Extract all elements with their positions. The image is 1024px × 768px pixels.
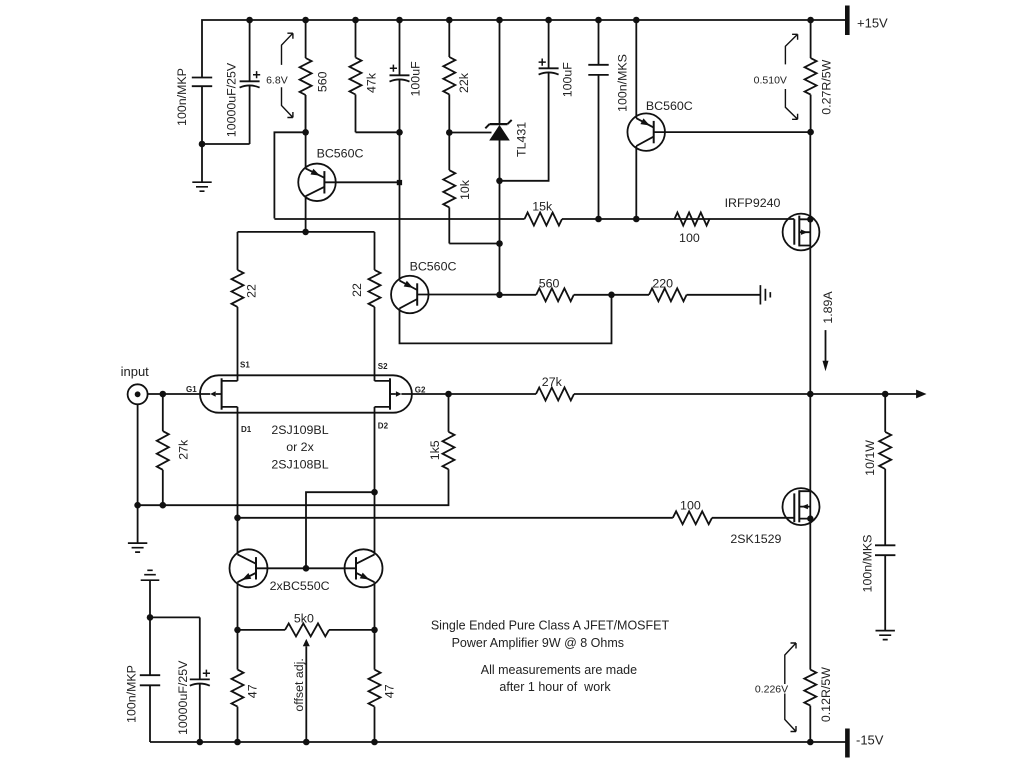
svg-text:input: input xyxy=(121,364,150,379)
svg-text:G1: G1 xyxy=(186,385,197,394)
label 22 right xyxy=(350,283,364,297)
wiper offset adj xyxy=(303,639,310,742)
label 10000uF/25V xyxy=(225,62,239,137)
svg-text:100n/MKP: 100n/MKP xyxy=(125,665,139,723)
resistor 10/1W xyxy=(879,394,891,545)
svg-text:D1: D1 xyxy=(241,425,252,434)
junction square BC560C base node xyxy=(397,180,402,185)
wire emitter node left jog xyxy=(274,132,305,218)
label 100 top xyxy=(679,231,700,245)
resistor 22k xyxy=(443,20,455,133)
jfet J2 right half xyxy=(375,378,402,409)
node top bus / 0.27R junction xyxy=(807,17,814,24)
wire input to G1 xyxy=(148,393,211,395)
label 100 bottom xyxy=(680,499,701,513)
wire 47k bottom to 100uF xyxy=(356,131,400,133)
svg-text:2SJ109BL: 2SJ109BL xyxy=(271,423,328,437)
node 5k0 left xyxy=(234,627,241,634)
capacitor 10000uF/25V (top-left electrolytic) xyxy=(240,20,261,144)
label 27k input xyxy=(177,439,191,460)
pin label D1 xyxy=(241,425,252,434)
node rail / 0.12R xyxy=(807,739,814,746)
svg-text:220: 220 xyxy=(652,277,673,291)
pin label S1 xyxy=(240,361,250,370)
node 560 / emitter junction xyxy=(302,129,309,136)
wire 10k bottom to TL431 cathode line xyxy=(449,243,499,245)
capacitor 100uF (left electrolytic) xyxy=(390,20,410,281)
label +15V xyxy=(857,15,888,30)
resistor 47k xyxy=(350,20,362,132)
node 5k0 right xyxy=(371,627,378,634)
resistor 47 right xyxy=(369,630,381,742)
node rail / 47 right xyxy=(371,739,378,746)
label 47 right xyxy=(382,684,396,698)
capacitor 100n/MKS (zobel) xyxy=(875,545,895,630)
svg-text:TL431: TL431 xyxy=(514,122,528,157)
wire D2 drop xyxy=(374,407,376,555)
mosfet 2SK1529 xyxy=(783,394,820,670)
label -15V xyxy=(856,732,884,747)
node IRFP drain stub xyxy=(807,216,813,222)
label 220 xyxy=(652,277,673,291)
svg-text:100n/MKS: 100n/MKS xyxy=(615,54,629,112)
wire +15V top bus xyxy=(202,20,848,78)
node 22k/10k junction xyxy=(446,129,453,136)
svg-text:22: 22 xyxy=(244,284,258,298)
label 22 left xyxy=(244,284,258,298)
label 10/1W xyxy=(863,440,877,476)
label 2SJ108BL xyxy=(271,457,328,471)
svg-text:BC560C: BC560C xyxy=(317,146,364,160)
connector input jack xyxy=(128,384,148,404)
wire emitter degeneration row xyxy=(238,629,375,631)
node 47k/100uF junction xyxy=(396,129,403,136)
label 560 middle xyxy=(539,277,560,291)
wire cap link xyxy=(150,616,200,618)
label 560 xyxy=(315,71,329,92)
svg-text:100n/MKS: 100n/MKS xyxy=(861,535,875,593)
node ground link xyxy=(199,141,206,148)
svg-text:15k: 15k xyxy=(532,200,553,214)
svg-text:+15V: +15V xyxy=(857,15,888,30)
svg-text:All measurements are made: All measurements are made xyxy=(481,663,637,677)
wire G2 to output xyxy=(401,393,536,395)
terminal +15V xyxy=(845,6,850,36)
mosfet IRFP9240 xyxy=(783,132,820,394)
node tail / BC560C1 collector xyxy=(302,229,309,236)
resistor 100 (2SK gate) xyxy=(673,511,712,524)
label input xyxy=(121,364,150,379)
node top bus / 10000uF junction xyxy=(246,17,253,24)
node top bus / BC560C3 emitter junction xyxy=(633,17,640,24)
resistor 560 (current source emitter) xyxy=(300,20,312,132)
resistor 10k xyxy=(443,133,455,244)
transistor BC550C right xyxy=(306,549,383,630)
capacitor 100n/MKS (top film cap) xyxy=(588,20,608,219)
node D2 / mirror tie junction xyxy=(371,489,378,496)
svg-text:100uF: 100uF xyxy=(561,62,575,98)
voltage bracket 0.510V xyxy=(785,34,797,119)
svg-text:2xBC550C: 2xBC550C xyxy=(270,579,330,593)
node top bus / 100uF2 junction xyxy=(545,17,552,24)
label 2SK1529 xyxy=(730,532,781,546)
label 5k0 xyxy=(294,611,314,625)
wire output rail xyxy=(574,393,917,395)
wire ground link top-left xyxy=(202,143,250,145)
svg-text:47: 47 xyxy=(245,684,259,698)
title line 4 xyxy=(499,680,611,694)
resistor 15k xyxy=(525,213,563,226)
label 6.8V xyxy=(266,75,288,87)
label 22k xyxy=(457,72,471,93)
svg-text:offset adj.: offset adj. xyxy=(292,658,306,712)
node top bus / 47k junction xyxy=(352,17,359,24)
svg-text:10k: 10k xyxy=(458,179,472,200)
transistor BC550C left xyxy=(230,549,307,630)
svg-text:560: 560 xyxy=(315,71,329,92)
label 0.226V xyxy=(755,684,788,696)
svg-text:Power Amplifier 9W @ 8 Ohms: Power Amplifier 9W @ 8 Ohms xyxy=(452,636,624,650)
node 15k row / BC560C3 collector junction xyxy=(633,216,640,223)
node TL431 / 10k junction xyxy=(496,240,503,247)
svg-text:6.8V: 6.8V xyxy=(266,75,288,87)
label 100n/MKS zobel xyxy=(861,535,875,593)
svg-text:D2: D2 xyxy=(378,422,389,431)
title line 3 xyxy=(481,663,637,677)
svg-text:BC560C: BC560C xyxy=(410,260,457,274)
resistor 220 xyxy=(649,288,687,301)
wire S1 drop xyxy=(237,307,239,381)
label 0.510V xyxy=(754,75,787,87)
transistor BC560C (middle) xyxy=(391,276,611,344)
svg-text:0.12R/5W: 0.12R/5W xyxy=(819,667,833,722)
output arrow xyxy=(916,390,926,399)
svg-text:0.27R/5W: 0.27R/5W xyxy=(820,59,834,114)
resistor 0.27R/5W xyxy=(805,20,817,132)
node input ground corner xyxy=(134,502,141,509)
svg-text:Single Ended Pure Class A JFET: Single Ended Pure Class A JFET/MOSFET xyxy=(431,619,670,633)
wire S2 drop xyxy=(374,307,376,381)
wire D1 drop xyxy=(237,407,239,555)
resistor 560 (gate stopper row) xyxy=(536,288,574,301)
svg-text:27k: 27k xyxy=(177,439,191,460)
svg-text:BC560C: BC560C xyxy=(646,99,693,113)
label 100n/MKP xyxy=(175,68,189,126)
resistor 47 left xyxy=(232,630,244,742)
label IRFP9240 xyxy=(725,196,781,210)
label BC560C middle xyxy=(410,260,457,274)
svg-text:1k5: 1k5 xyxy=(428,440,442,460)
resistor 22 right xyxy=(369,232,381,307)
node output / 10-1W junction xyxy=(882,391,889,398)
ground sideways (220 end) xyxy=(760,285,770,304)
transistor BC560C (tail current source) xyxy=(298,95,399,232)
label 47 left xyxy=(245,684,259,698)
node rail / wiper xyxy=(303,739,310,746)
svg-text:100: 100 xyxy=(680,499,701,513)
svg-text:1.89A: 1.89A xyxy=(821,291,835,324)
svg-text:560: 560 xyxy=(539,277,560,291)
node 0.27R / base junction xyxy=(807,129,814,136)
resistor 27k (input) xyxy=(157,394,169,505)
pin label S2 xyxy=(378,362,388,371)
label 10k xyxy=(458,179,472,200)
label BC560C tail xyxy=(317,146,364,160)
node bottom-left caps xyxy=(147,614,154,621)
node rail / 47 left xyxy=(234,739,241,746)
svg-text:27k: 27k xyxy=(542,375,563,389)
resistor 22 left xyxy=(232,232,244,307)
node input / 27k junction xyxy=(160,391,167,398)
label 2SJ109BL xyxy=(271,423,328,437)
ground top-left xyxy=(192,144,211,191)
label 1k5 xyxy=(428,440,442,460)
node mirror bases xyxy=(303,565,310,572)
label 100n/MKS xyxy=(615,54,629,112)
svg-text:2SK1529: 2SK1529 xyxy=(730,532,781,546)
label 100uF xyxy=(408,61,422,97)
title line 1 xyxy=(431,619,670,633)
node 27k bottom xyxy=(160,502,167,509)
wire input ground drop xyxy=(137,404,139,505)
capacitor 100n/MKP (bottom film cap) xyxy=(140,617,160,742)
voltage bracket 0.226V xyxy=(785,643,796,732)
diode TL431 (shunt reference) xyxy=(485,20,511,295)
svg-text:or 2x: or 2x xyxy=(286,440,314,454)
node top bus / 100uF junction xyxy=(396,17,403,24)
node output / IRFP source xyxy=(807,391,814,398)
label 0.27R/5W xyxy=(820,59,834,114)
svg-text:10000uF/25V: 10000uF/25V xyxy=(176,660,190,735)
node 2SK source stub xyxy=(807,515,813,521)
label 27k feedback xyxy=(542,375,563,389)
svg-text:2SJ108BL: 2SJ108BL xyxy=(271,457,328,471)
wire TL431 ref xyxy=(449,132,491,134)
terminal -15V xyxy=(845,729,850,758)
label or 2x xyxy=(286,440,314,454)
node top bus / TL431 junction xyxy=(496,17,503,24)
svg-text:47: 47 xyxy=(382,684,396,698)
node rail / MKP bottom xyxy=(197,739,204,746)
label 100uF right xyxy=(561,62,575,98)
wire -15V bottom rail xyxy=(150,741,848,743)
jfet J1 left half xyxy=(210,378,237,409)
node 560/220 junction xyxy=(608,292,615,299)
wire 560-220 row xyxy=(500,294,761,296)
label 47k xyxy=(364,72,378,93)
node top bus / 100n MKS junction xyxy=(595,17,602,24)
wire 15k row xyxy=(274,218,794,220)
label 100n/MKP bottom xyxy=(125,665,139,723)
title line 2 xyxy=(452,636,624,650)
wire gate feed row (D1 to 2SK1529) xyxy=(238,517,795,519)
node D1 / gate feed junction xyxy=(234,515,241,522)
svg-text:IRFP9240: IRFP9240 xyxy=(725,196,781,210)
node TL431 / 100uF2 junction xyxy=(496,178,503,185)
ground bottom-left (flipped) xyxy=(141,570,160,617)
wire tail node xyxy=(238,231,375,233)
svg-text:G2: G2 xyxy=(415,385,426,394)
pin label G1 xyxy=(186,385,197,394)
label 15k xyxy=(532,200,553,214)
svg-text:22k: 22k xyxy=(457,72,471,93)
pin label G2 xyxy=(415,385,426,394)
node top bus / 22k junction xyxy=(446,17,453,24)
label 2xBC550C xyxy=(270,579,330,593)
svg-text:-15V: -15V xyxy=(856,732,884,747)
label 0.12R/5W xyxy=(819,667,833,722)
svg-text:5k0: 5k0 xyxy=(294,611,314,625)
ground input xyxy=(128,505,147,552)
svg-text:S2: S2 xyxy=(378,362,388,371)
capacitor 100n/MKP (top-left film cap) xyxy=(192,78,212,145)
capacitor 10000uF/25V (bottom electrolytic) xyxy=(190,617,210,742)
label BC560C top right xyxy=(646,99,693,113)
resistor 0.12R/5W xyxy=(804,670,816,742)
wire signal ground rail xyxy=(138,504,375,506)
svg-text:10/1W: 10/1W xyxy=(863,440,877,476)
svg-text:100uF: 100uF xyxy=(408,61,422,97)
node TL431 / base wire junction xyxy=(496,292,503,299)
svg-text:after 1 hour of work: after 1 hour of work xyxy=(499,680,611,694)
potentiometer 5k0 xyxy=(285,623,329,636)
svg-text:0.510V: 0.510V xyxy=(754,75,787,87)
resistor 27k (feedback) xyxy=(536,388,574,401)
svg-text:100: 100 xyxy=(679,231,700,245)
capacitor 100uF (right electrolytic) xyxy=(500,20,559,181)
pin label D2 xyxy=(378,422,389,431)
node G2 / 1k5 junction xyxy=(445,391,452,398)
svg-text:0.226V: 0.226V xyxy=(755,684,788,696)
ground zobel xyxy=(876,631,895,640)
label 10000uF/25V bottom xyxy=(176,660,190,735)
svg-text:S1: S1 xyxy=(240,361,250,370)
current arrow 1.89A xyxy=(823,330,829,371)
node top bus / 560 junction xyxy=(302,17,309,24)
svg-text:47k: 47k xyxy=(364,72,378,93)
svg-text:10000uF/25V: 10000uF/25V xyxy=(225,62,239,137)
label TL431 xyxy=(514,122,528,157)
voltage bracket 6.8V xyxy=(282,33,293,117)
node 15k row / MKS junction xyxy=(595,216,602,223)
label offset adj. xyxy=(292,658,306,712)
svg-text:22: 22 xyxy=(350,283,364,297)
resistor 100 (IRFP gate) xyxy=(675,213,710,226)
wire mirror base tie jog xyxy=(306,492,375,568)
svg-text:100n/MKP: 100n/MKP xyxy=(175,68,189,126)
resistor 1k5 xyxy=(375,394,455,505)
transistor BC560C (top right, Vgs servo) xyxy=(627,20,810,219)
jfet dual 2SJ109BL package outline xyxy=(200,375,412,412)
label 1.89A xyxy=(821,291,835,324)
